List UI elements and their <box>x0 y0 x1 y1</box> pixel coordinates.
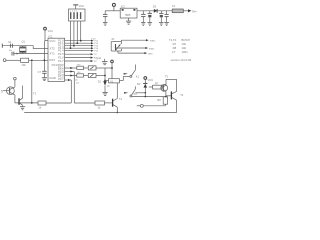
svg-text:VCC: VCC <box>148 78 154 82</box>
svg-text:P1.4: P1.4 <box>58 49 64 53</box>
svg-text:RX: RX <box>94 57 98 59</box>
svg-text:K1: K1 <box>136 74 140 78</box>
svg-text:10k: 10k <box>21 63 26 67</box>
svg-text:VCC: VCC <box>79 4 85 8</box>
svg-text:K2: K2 <box>134 92 138 96</box>
svg-text:RST: RST <box>49 58 55 62</box>
svg-text:C6: C6 <box>75 79 79 81</box>
svg-text:D4: D4 <box>76 83 80 85</box>
svg-text:version 10.10.06: version 10.10.06 <box>171 58 192 62</box>
svg-text:P1.6: P1.6 <box>58 55 64 59</box>
svg-text:X1: X1 <box>111 37 115 41</box>
svg-text:XT1: XT1 <box>49 52 55 56</box>
svg-text:TX: TX <box>94 54 97 56</box>
svg-text:P1.5: P1.5 <box>58 52 64 56</box>
svg-text:IC2: IC2 <box>121 4 126 8</box>
svg-text:F1: F1 <box>172 4 176 8</box>
svg-text:9VAC: 9VAC <box>149 47 155 50</box>
svg-text:R8: R8 <box>157 98 161 102</box>
svg-text:100n: 100n <box>182 50 189 54</box>
svg-text:P15: P15 <box>94 51 99 53</box>
svg-text:T3: T3 <box>165 74 169 78</box>
svg-text:1k: 1k <box>98 105 101 109</box>
svg-text:T2: T2 <box>119 97 123 101</box>
svg-text:XT2: XT2 <box>49 47 55 51</box>
svg-text:NT: NT <box>94 61 98 63</box>
svg-text:T4: T4 <box>180 93 184 97</box>
svg-text:D2: D2 <box>137 82 141 86</box>
svg-text:R7: R7 <box>155 81 159 85</box>
svg-text:1 2 3 4: 1 2 3 4 <box>70 11 77 13</box>
svg-text:GND: GND <box>49 76 55 80</box>
svg-text:VCC: VCC <box>49 39 55 43</box>
svg-text:5: 5 <box>1 90 3 94</box>
svg-text:VCC: VCC <box>48 29 54 33</box>
svg-text:7805: 7805 <box>125 13 131 17</box>
svg-text:IC1: IC1 <box>49 34 54 38</box>
svg-text:P3.7: P3.7 <box>58 77 64 81</box>
svg-text:gnd: gnd <box>97 56 102 60</box>
svg-text:Q1: Q1 <box>22 39 26 43</box>
svg-text:C4: C4 <box>8 40 12 44</box>
svg-text:C7: C7 <box>38 70 42 74</box>
svg-text:g5v: g5v <box>107 85 111 87</box>
svg-text:D1: D1 <box>98 80 102 84</box>
svg-text:9V=: 9V= <box>192 9 197 13</box>
svg-text:1k: 1k <box>39 105 42 109</box>
svg-text:9VAC: 9VAC <box>150 40 156 43</box>
svg-text:T2: T2 <box>33 92 37 96</box>
svg-text:P1.7: P1.7 <box>58 59 64 63</box>
svg-text:GND: GND <box>148 54 153 56</box>
svg-text:D3: D3 <box>153 5 157 9</box>
svg-text:C7: C7 <box>172 50 176 54</box>
svg-text:K1: K1 <box>110 79 114 83</box>
